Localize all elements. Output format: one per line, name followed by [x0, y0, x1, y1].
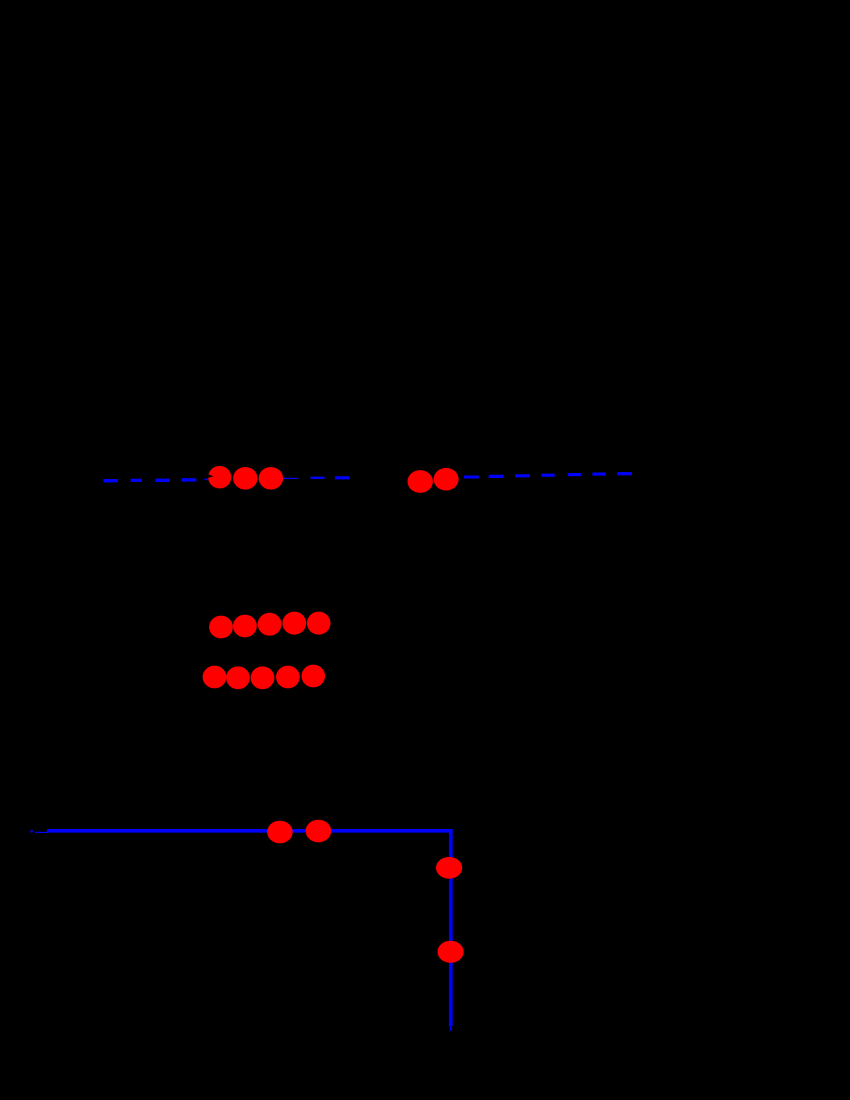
electron e6 (on horizontal conductor) — [267, 821, 293, 844]
wire: solid conductor, pen-start tick — [31, 830, 33, 833]
electron e7 (on horizontal conductor) — [306, 820, 332, 843]
wire: dashed level line (middle dashes between electron groups) — [283, 477, 349, 480]
wire: solid conductor, thin tail at bottom — [450, 1026, 452, 1031]
electron e3 — [259, 467, 283, 490]
electron e1 (on dashed level, group 1) — [208, 466, 231, 489]
wire: dashed level line (right trailing dashes) — [464, 474, 632, 477]
wire: solid conductor L-shaped (horizontal then vertical) — [47, 831, 451, 1026]
electron e4 (on dashed level, group 2) — [408, 470, 433, 493]
electron row 1 (five electrons) — [209, 612, 330, 639]
wire: solid conductor, thin taper lead-in — [35, 831, 48, 833]
arrow tip overlapping electron e1 — [205, 474, 214, 479]
wire: dashed energy-level line (left segment dashes) — [103, 479, 208, 480]
electron row 2 (five electrons) — [203, 665, 326, 690]
electron e9 (on vertical conductor) — [438, 941, 464, 963]
electron e2 — [233, 467, 257, 490]
electron e5 — [434, 468, 459, 491]
electron e8 (on vertical conductor) — [436, 857, 462, 879]
